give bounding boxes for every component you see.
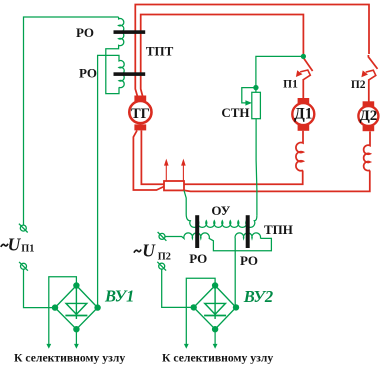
wire: VU2 plus output to selective node (left arrow) <box>186 278 215 345</box>
wire: VU2 minus output to selective node (bottom arrow) <box>214 329 216 345</box>
svg-text:Д2: Д2 <box>359 108 377 124</box>
rectifier bridge VU1 (diamond) <box>55 286 98 330</box>
svg-text:П2: П2 <box>351 79 366 91</box>
TPT core 2 (black bar) <box>114 72 146 76</box>
wire: green from P1 node to STN top <box>256 56 304 92</box>
svg-text:Д1: Д1 <box>294 105 312 122</box>
svg-text:U: U <box>8 234 22 254</box>
wire: green from U_P1 lower terminal to VU1 left corner <box>24 270 56 308</box>
svg-text:РО: РО <box>240 253 258 268</box>
secondary winding RO (lower, on TPT core 2) <box>98 55 125 304</box>
svg-text:ТПН: ТПН <box>264 222 293 237</box>
winding RO (right, on TPN core 2), left end drops to VU2 right corner <box>235 233 261 305</box>
wire: red left pair below TG down to shunt bends <box>133 131 164 191</box>
junction dots at VU2 corners <box>212 282 218 288</box>
circuit breaker P1 (contact + trip arrow) <box>304 59 313 72</box>
motor D2 <box>363 101 375 106</box>
svg-text:РО: РО <box>76 25 94 40</box>
wire: red upper bus from shunt to motor D1 branch <box>184 171 303 185</box>
svg-text:РО: РО <box>189 251 207 266</box>
wire: green STN bottom down to OU winding right end <box>255 119 258 216</box>
label ~U_P2 source <box>134 250 141 253</box>
label ~U_P1 source <box>1 244 8 247</box>
motor D1 <box>298 98 310 104</box>
winding RO (left, on TPN core 1) and series connector to right RO winding <box>165 233 271 251</box>
wire: red top inner bus from TPT primary right line to P1 <box>141 15 304 97</box>
potentiometer STN body <box>252 92 261 118</box>
junction dots at VU1 corners <box>73 282 79 288</box>
tachogenerator TG <box>134 96 146 102</box>
svg-text:К селективному узлу: К селективному узлу <box>14 352 125 365</box>
wire: red lower bus from shunt to motor D2 branch <box>184 171 370 192</box>
wire: red top outer bus from TPT primary left line to P2 <box>135 5 369 97</box>
svg-text:П1: П1 <box>21 244 34 255</box>
TPN core 2 (black bar) <box>246 215 250 248</box>
wiper branch of potentiometer STN <box>242 88 256 103</box>
shunt resistor RS (in armature bus) <box>164 181 184 190</box>
svg-text:ВУ2: ВУ2 <box>243 287 273 306</box>
inductor (smoothing choke) of D2 branch <box>364 131 370 170</box>
wire: VU1 plus output to selective node (left arrow) <box>49 277 77 345</box>
voltage tap arrow left on shunt <box>165 165 167 181</box>
svg-text:СТН: СТН <box>221 105 249 120</box>
rectifier bridge VU2 (diamond) <box>194 286 236 330</box>
TPN core 1 (black bar) <box>195 215 199 248</box>
svg-text:РО: РО <box>79 65 97 80</box>
circuit breaker P2 (contact + trip arrow) <box>368 55 377 69</box>
junction dot above STN <box>253 85 258 90</box>
diode inside VU1 <box>75 288 77 319</box>
secondary winding RO (upper, on TPT core 1) <box>106 17 124 94</box>
svg-text:П2: П2 <box>158 251 171 262</box>
svg-text:ВУ1: ВУ1 <box>104 287 134 306</box>
green junction dot at P1 / STN node <box>301 54 306 59</box>
svg-text:U: U <box>142 241 156 261</box>
AC terminal (lower) of U_P1 source <box>21 263 27 269</box>
voltage tap arrow right on shunt <box>182 165 184 181</box>
svg-text:К селективному узлу: К селективному узлу <box>162 352 273 365</box>
AC terminal (lower) of U_P2 source <box>159 263 165 269</box>
control winding OU of TPN (spans both cores) <box>186 214 257 227</box>
wire: green from U_P2 lower terminal to VU2 left corner <box>162 269 194 307</box>
wire: green from shunt to OU winding left end <box>184 190 186 214</box>
AC terminal (upper) of U_P1 source <box>20 225 26 231</box>
svg-text:ТПТ: ТПТ <box>146 44 174 59</box>
wire: green left rail from top wire to U_P1 upper terminal <box>24 17 119 225</box>
TPT core 1 (black bar) <box>114 30 146 34</box>
svg-text:ТГ: ТГ <box>131 106 150 122</box>
wire: VU1 minus output to selective node (bottom arrow) <box>75 329 77 345</box>
svg-text:П1: П1 <box>283 78 298 90</box>
AC terminal (upper) of U_P2 source <box>159 233 165 239</box>
svg-text:ОУ: ОУ <box>211 203 230 218</box>
diode inside VU2 <box>214 288 216 319</box>
inductor (smoothing choke) of D1 branch <box>296 131 303 171</box>
